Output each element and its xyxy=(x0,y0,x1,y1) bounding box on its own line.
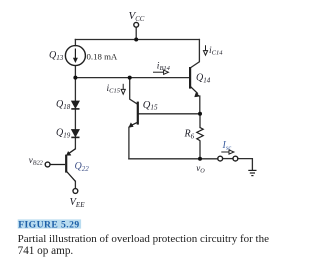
current arrow Isc xyxy=(221,150,234,154)
wire top rail xyxy=(75,39,199,41)
svg-text:VEE: VEE xyxy=(70,197,86,209)
svg-text:741 op amp.: 741 op amp. xyxy=(18,245,74,257)
svg-text:Q19: Q19 xyxy=(56,128,71,140)
current arrow iC14 xyxy=(203,45,207,55)
transistor Q14 xyxy=(190,67,200,97)
current arrow iB14 xyxy=(153,70,168,74)
svg-text:Partial illustration of overlo: Partial illustration of overload protect… xyxy=(18,233,270,245)
wire diode chain upper xyxy=(74,78,76,101)
label iC15 xyxy=(107,84,121,95)
node base rail left xyxy=(73,76,77,80)
svg-text:iC14: iC14 xyxy=(209,46,223,57)
label 0.18 mA xyxy=(87,51,118,61)
node base rail middle xyxy=(128,76,132,80)
resistor R6 xyxy=(197,128,203,141)
label Q14 xyxy=(196,73,211,85)
terminal VEE xyxy=(73,189,78,194)
label VCC xyxy=(129,10,145,23)
current source Q13 xyxy=(65,46,85,66)
svg-text:Q15: Q15 xyxy=(143,100,158,112)
wire node to R6 top xyxy=(199,114,201,128)
terminal output right xyxy=(233,156,238,161)
caption line 2 xyxy=(18,245,74,257)
terminal vB22 xyxy=(45,162,50,167)
svg-text:Q22: Q22 xyxy=(75,161,90,173)
node Q14 emitter R6 xyxy=(198,112,202,116)
label vB22 xyxy=(29,155,43,167)
wire right drop from top rail xyxy=(190,40,199,69)
wire between terminals xyxy=(223,158,233,160)
wire Q15 emitter drop xyxy=(128,127,130,159)
wire below Q19 to Q22 emitter xyxy=(74,137,76,148)
caption figure number xyxy=(18,220,79,231)
label Q15 xyxy=(143,100,158,112)
wire Q15 base lead xyxy=(138,113,200,115)
svg-text:VCC: VCC xyxy=(129,10,145,23)
wire between diodes xyxy=(74,109,76,130)
terminal output left xyxy=(218,156,223,161)
diode Q19 xyxy=(71,130,79,138)
transistor Q15 xyxy=(129,102,138,128)
wire Q13 top xyxy=(74,40,76,46)
wire base rail to Q14 xyxy=(75,77,189,79)
wire Q14 emitter drop xyxy=(199,96,201,114)
power VCC terminal xyxy=(134,22,139,27)
svg-text:R6: R6 xyxy=(184,129,195,141)
svg-text:vB22: vB22 xyxy=(29,155,43,167)
wire terminal to ground corner xyxy=(238,159,253,170)
label VEE xyxy=(70,197,86,209)
svg-text:0.18 mA: 0.18 mA xyxy=(87,51,118,61)
svg-text:iC15: iC15 xyxy=(107,84,121,95)
label Q19 xyxy=(56,128,71,140)
current arrow iC15 xyxy=(121,84,125,94)
transistor Q22 xyxy=(50,149,76,182)
wire output rail xyxy=(129,158,218,160)
svg-text:iB14: iB14 xyxy=(157,62,171,73)
caption highlight xyxy=(18,219,81,228)
wire Q22 collector drop xyxy=(74,181,76,188)
label iB14 xyxy=(157,62,171,73)
svg-text:Q14: Q14 xyxy=(196,73,211,85)
wire VCC stub xyxy=(135,27,137,39)
svg-text:FIGURE 5.29: FIGURE 5.29 xyxy=(18,220,79,231)
svg-text:Q18: Q18 xyxy=(56,99,71,111)
label iC14 xyxy=(209,46,223,57)
ground xyxy=(248,170,256,175)
label Q18 xyxy=(56,99,71,111)
diode Q18 xyxy=(71,101,79,109)
wire Q13 bottom to node xyxy=(74,66,76,78)
label Q22 xyxy=(75,161,90,173)
svg-text:Isc: Isc xyxy=(222,140,232,152)
wire R6 bottom to output rail xyxy=(199,141,201,159)
label Q13 xyxy=(49,50,64,62)
node output xyxy=(198,157,202,161)
label Isc xyxy=(222,140,232,152)
svg-text:Q13: Q13 xyxy=(49,50,64,62)
label R6 xyxy=(184,129,195,141)
svg-text:vO: vO xyxy=(196,163,205,175)
wire node to Q15 collector xyxy=(130,78,138,105)
node at VCC junction xyxy=(134,38,138,42)
caption line 1 xyxy=(18,233,270,245)
label vO xyxy=(196,163,205,175)
